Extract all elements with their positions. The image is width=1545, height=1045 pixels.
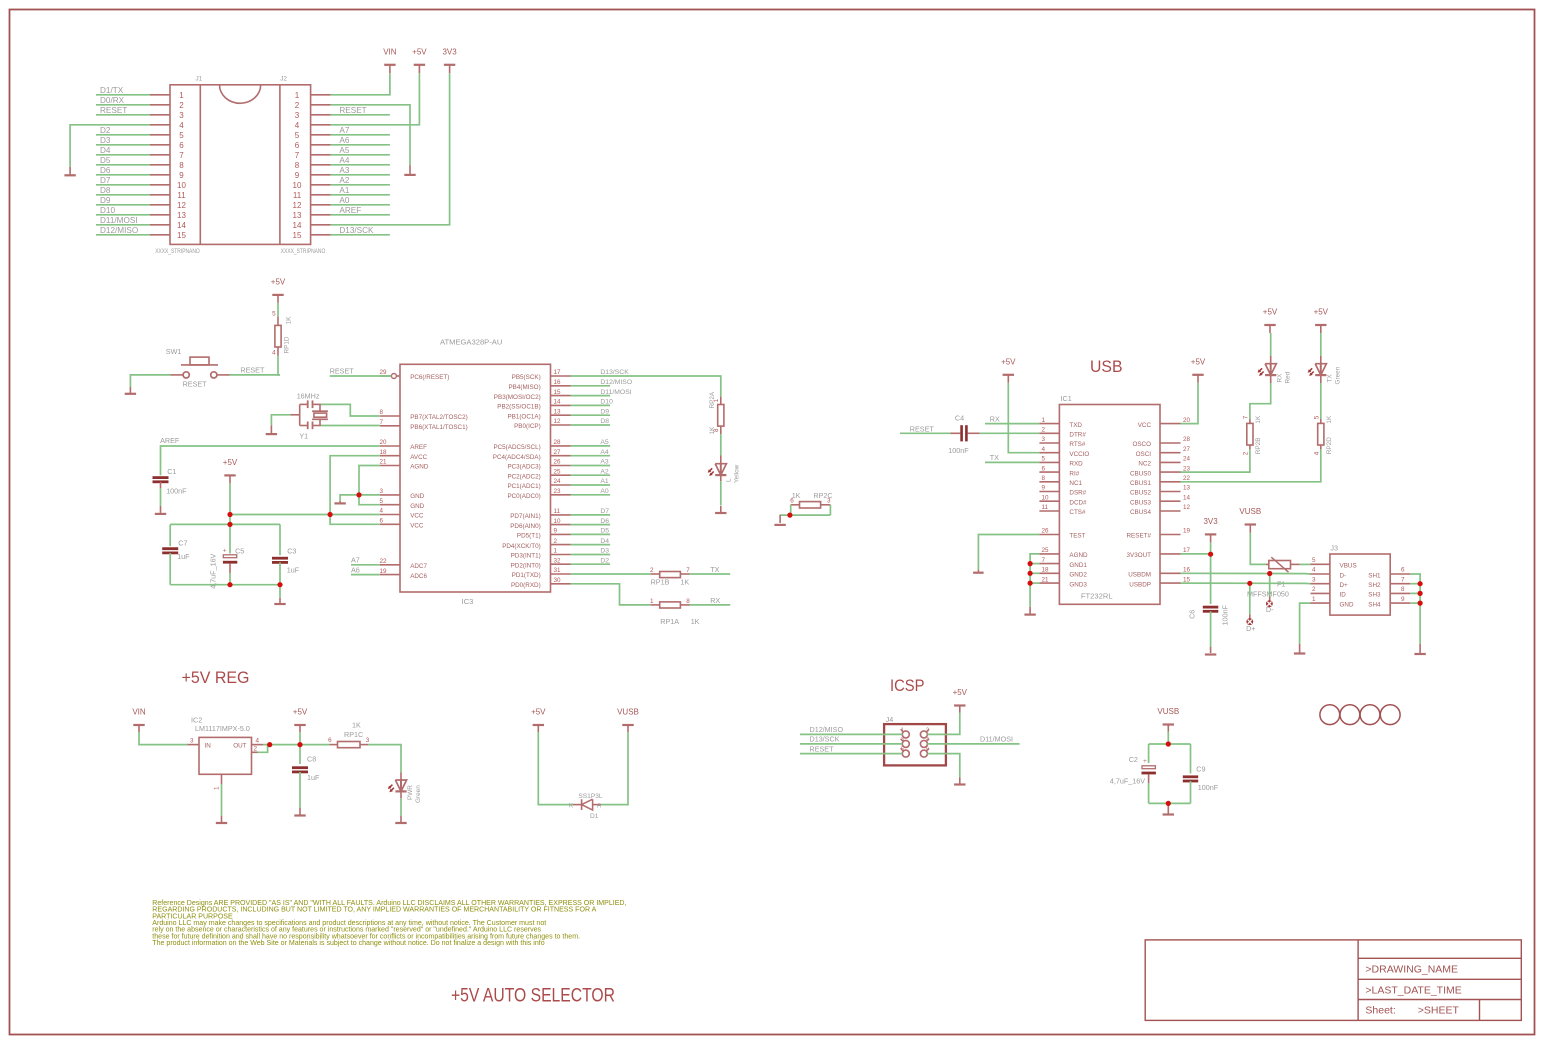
svg-text:CBUS0: CBUS0 [1130,470,1151,477]
svg-text:L: L [726,478,733,482]
svg-text:+5V: +5V [1191,357,1206,366]
svg-text:C4: C4 [955,414,964,423]
svg-text:C6: C6 [1187,610,1196,619]
svg-text:RXD: RXD [1069,461,1083,468]
svg-text:AREF: AREF [339,206,361,215]
svg-text:A1: A1 [339,186,349,195]
svg-text:26: 26 [554,459,562,466]
svg-text:CBUS1: CBUS1 [1130,480,1151,487]
svg-text:SH2: SH2 [1368,582,1381,589]
svg-text:4: 4 [1042,446,1046,453]
svg-text:USBDM: USBDM [1128,572,1151,579]
svg-text:>DRAWING_NAME: >DRAWING_NAME [1365,964,1458,976]
svg-text:A6: A6 [339,136,349,145]
svg-text:IN: IN [205,743,212,750]
svg-text:SH1: SH1 [1368,572,1381,579]
svg-text:3V3OUT: 3V3OUT [1127,552,1152,559]
svg-text:7: 7 [1042,557,1046,564]
svg-text:XXXX_STRIPNANO: XXXX_STRIPNANO [155,248,200,255]
svg-text:AGND: AGND [1069,552,1088,559]
svg-text:3: 3 [366,737,370,744]
svg-text:DCD#: DCD# [1069,499,1087,506]
svg-text:6: 6 [1042,465,1046,472]
svg-text:21: 21 [380,459,388,466]
svg-text:C1: C1 [167,467,176,476]
svg-text:6: 6 [328,737,332,744]
svg-text:D7: D7 [100,176,111,185]
svg-text:VCC: VCC [410,523,424,530]
svg-text:5: 5 [272,311,276,318]
svg-text:>LAST_DATE_TIME: >LAST_DATE_TIME [1365,985,1461,997]
svg-text:VBUS: VBUS [1340,563,1357,570]
svg-text:AVCC: AVCC [410,454,427,461]
svg-text:6: 6 [380,518,384,525]
svg-text:5: 5 [901,747,904,753]
svg-text:17: 17 [554,369,562,376]
svg-text:13: 13 [554,408,562,415]
svg-text:PD1(TXD): PD1(TXD) [512,572,541,579]
svg-text:AREF: AREF [410,444,427,451]
svg-text:20: 20 [380,439,388,446]
svg-text:IC3: IC3 [462,597,474,606]
svg-text:1K: 1K [1255,415,1262,424]
svg-text:PB5(SCK): PB5(SCK) [512,374,541,381]
svg-text:A0: A0 [600,488,609,495]
svg-text:18: 18 [380,449,388,456]
svg-text:+5V: +5V [1263,308,1278,317]
svg-text:C7: C7 [178,538,187,547]
svg-text:15: 15 [1183,576,1191,583]
svg-text:VIN: VIN [383,47,397,56]
svg-text:PC1(ADC1): PC1(ADC1) [507,483,540,490]
svg-text:1: 1 [901,727,904,733]
svg-text:PD5(T1): PD5(T1) [517,533,541,540]
svg-text:PB6(XTAL1/TOSC1): PB6(XTAL1/TOSC1) [410,424,468,431]
svg-text:5: 5 [1312,557,1316,564]
svg-text:100nF: 100nF [1198,783,1219,792]
svg-text:PC6(/RESET): PC6(/RESET) [410,374,449,381]
svg-text:16: 16 [1183,567,1191,574]
svg-text:1: 1 [295,91,300,100]
svg-text:3V3: 3V3 [442,47,457,56]
svg-text:3: 3 [380,488,384,495]
svg-text:Green: Green [415,785,422,803]
svg-text:+5V: +5V [1001,357,1016,366]
svg-text:D12/MISO: D12/MISO [600,379,632,386]
svg-text:IC2: IC2 [191,715,202,724]
svg-text:17: 17 [1183,547,1191,554]
svg-text:13: 13 [177,211,186,220]
svg-text:12: 12 [177,201,186,210]
svg-text:GND: GND [1340,601,1354,608]
svg-text:24: 24 [554,478,562,485]
svg-text:23: 23 [554,488,562,495]
svg-text:A4: A4 [600,449,609,456]
svg-text:RP1C: RP1C [344,730,363,739]
svg-text:ID: ID [1340,592,1347,599]
svg-text:SW1: SW1 [166,347,182,356]
svg-text:16MHz: 16MHz [297,392,320,401]
svg-text:1K: 1K [286,316,293,325]
svg-text:TEST: TEST [1069,533,1085,540]
svg-text:D11/MOSI: D11/MOSI [980,735,1013,744]
svg-text:CBUS3: CBUS3 [1130,499,1151,506]
svg-text:5: 5 [1313,415,1320,419]
svg-text:19: 19 [380,568,388,575]
svg-text:25: 25 [554,468,562,475]
svg-text:5: 5 [380,498,384,505]
svg-text:D8: D8 [600,418,609,425]
svg-text:PWR: PWR [407,785,414,800]
svg-text:>SHEET: >SHEET [1418,1004,1460,1016]
svg-text:D-: D- [1340,572,1347,579]
svg-text:31: 31 [554,567,562,574]
svg-text:1: 1 [1312,596,1316,603]
svg-text:4: 4 [926,737,929,743]
svg-text:2: 2 [650,567,654,574]
svg-text:DTR#: DTR# [1069,432,1086,439]
svg-text:VUSB: VUSB [1239,507,1261,516]
svg-text:18: 18 [1042,567,1050,574]
svg-text:100nF: 100nF [948,446,969,455]
svg-text:4: 4 [1312,567,1316,574]
svg-text:AREF: AREF [160,436,180,445]
svg-text:D12/MISO: D12/MISO [810,725,844,734]
svg-text:15: 15 [177,231,186,240]
svg-text:24: 24 [1183,456,1191,463]
svg-text:RESET: RESET [183,380,208,389]
svg-text:+5V AUTO SELECTOR: +5V AUTO SELECTOR [451,985,615,1007]
svg-text:3: 3 [1312,576,1316,583]
svg-text:PB3(MOSI/OC2): PB3(MOSI/OC2) [494,394,541,401]
svg-text:A1: A1 [600,478,609,485]
svg-text:A3: A3 [339,166,349,175]
svg-text:VCCIO: VCCIO [1069,451,1089,458]
svg-text:3: 3 [1042,436,1046,443]
svg-text:2: 2 [254,746,258,753]
svg-text:4,7uF_16V: 4,7uF_16V [208,553,217,588]
svg-text:+: + [1143,758,1147,765]
svg-text:28: 28 [554,439,562,446]
svg-text:6: 6 [179,141,184,150]
svg-text:7: 7 [179,151,184,160]
svg-text:12: 12 [554,418,562,425]
svg-text:1: 1 [554,548,558,555]
svg-text:6: 6 [1401,567,1405,574]
svg-text:RESET#: RESET# [1127,533,1152,540]
svg-text:C2: C2 [1129,755,1138,764]
svg-text:1: 1 [214,786,221,790]
svg-text:D2: D2 [600,557,609,564]
svg-text:D12/MISO: D12/MISO [100,226,138,235]
svg-text:VUSB: VUSB [617,708,639,717]
svg-text:A5: A5 [600,439,609,446]
svg-text:VCC: VCC [1138,422,1152,429]
svg-text:14: 14 [177,221,186,230]
svg-text:7: 7 [686,567,690,574]
svg-text:12: 12 [1183,504,1191,511]
svg-text:9: 9 [554,528,558,535]
svg-text:15: 15 [293,231,302,240]
svg-text:RESET: RESET [240,366,265,375]
svg-text:RESET: RESET [100,106,127,115]
svg-text:1K: 1K [792,491,801,500]
svg-text:PB4(MISO): PB4(MISO) [508,384,540,391]
svg-text:D8: D8 [100,186,111,195]
svg-text:D9: D9 [600,408,609,415]
svg-text:PC2(ADC2): PC2(ADC2) [507,473,540,480]
svg-text:D+: D+ [1340,582,1349,589]
svg-text:CBUS2: CBUS2 [1130,490,1151,497]
svg-text:D+: D+ [1246,624,1255,633]
svg-text:PD6(AIN0): PD6(AIN0) [510,523,540,530]
svg-text:22: 22 [380,558,388,565]
svg-text:7: 7 [295,151,300,160]
svg-text:RP2A: RP2A [709,391,716,408]
svg-text:RX: RX [990,414,1000,423]
svg-text:SS1P3L: SS1P3L [578,793,603,800]
svg-text:J2: J2 [280,75,287,82]
svg-text:ICSP: ICSP [890,676,925,695]
svg-text:8: 8 [1401,586,1405,593]
svg-text:4: 4 [272,350,276,357]
svg-text:D5: D5 [100,156,111,165]
svg-text:+5V: +5V [293,708,308,717]
svg-text:8: 8 [686,598,690,605]
svg-text:100nF: 100nF [166,487,187,496]
svg-text:32: 32 [554,557,562,564]
svg-text:RP2C: RP2C [813,491,832,500]
svg-text:TXD: TXD [1069,422,1082,429]
svg-text:PB0(ICP): PB0(ICP) [514,423,541,430]
svg-text:D13/SCK: D13/SCK [339,226,374,235]
svg-text:2: 2 [926,727,929,733]
svg-text:D2: D2 [100,126,111,135]
svg-text:4,7uF_16V: 4,7uF_16V [1110,777,1145,786]
svg-text:RESET: RESET [339,106,366,115]
svg-text:C3: C3 [287,547,296,556]
svg-text:SH3: SH3 [1368,592,1381,599]
svg-text:A5: A5 [339,146,349,155]
svg-text:2: 2 [1312,586,1316,593]
svg-text:D10: D10 [100,206,115,215]
svg-text:PD2(INT0): PD2(INT0) [511,562,541,569]
svg-text:1uF: 1uF [307,773,320,782]
svg-text:7: 7 [380,419,384,426]
svg-text:14: 14 [1183,494,1191,501]
svg-text:GND3: GND3 [1069,581,1087,588]
svg-text:D9: D9 [100,196,111,205]
svg-text:9: 9 [1042,485,1046,492]
svg-text:NC2: NC2 [1138,461,1151,468]
svg-text:1uF: 1uF [177,552,190,561]
svg-text:A2: A2 [600,468,609,475]
svg-text:VUSB: VUSB [1157,707,1179,716]
svg-text:8: 8 [295,161,300,170]
svg-text:D1/TX: D1/TX [100,86,124,95]
svg-text:10: 10 [1042,494,1050,501]
svg-text:1: 1 [179,91,184,100]
svg-text:GND2: GND2 [1069,572,1087,579]
svg-text:PB1(OC1A): PB1(OC1A) [507,413,540,420]
svg-text:D1: D1 [590,813,599,820]
svg-text:14: 14 [293,221,302,230]
svg-text:1K: 1K [352,720,361,729]
svg-text:J1: J1 [196,75,203,82]
svg-text:10: 10 [554,518,562,525]
svg-text:10: 10 [177,181,186,190]
svg-text:Y1: Y1 [299,431,308,440]
svg-text:9: 9 [179,171,184,180]
svg-text:RX: RX [710,596,720,605]
svg-text:USB: USB [1090,357,1123,376]
svg-text:27: 27 [554,449,562,456]
svg-text:SH4: SH4 [1368,601,1381,608]
svg-text:CBUS4: CBUS4 [1130,509,1151,516]
svg-text:PD0(RXD): PD0(RXD) [511,582,541,589]
svg-text:28: 28 [1183,436,1191,443]
svg-text:LM1117IMPX-5.0: LM1117IMPX-5.0 [195,724,250,733]
svg-text:TX: TX [710,565,719,574]
svg-text:A7: A7 [351,556,360,565]
svg-text:+5V: +5V [531,708,546,717]
svg-text:C8: C8 [307,755,316,764]
svg-text:1K: 1K [709,426,716,435]
svg-text:USBDP: USBDP [1129,581,1151,588]
svg-text:TX: TX [1327,374,1334,383]
svg-text:ADC6: ADC6 [410,573,427,580]
svg-text:1: 1 [1042,417,1046,424]
svg-text:RX: RX [1277,373,1284,383]
svg-text:D4: D4 [100,146,111,155]
svg-text:9: 9 [1401,596,1405,603]
svg-text:5: 5 [295,131,300,140]
svg-text:D7: D7 [600,508,609,515]
svg-text:D3: D3 [600,548,609,555]
svg-text:A0: A0 [339,196,349,205]
svg-text:D5: D5 [600,528,609,535]
svg-text:PC3(ADC3): PC3(ADC3) [507,464,540,471]
svg-text:3: 3 [190,737,194,744]
svg-text:2: 2 [554,538,558,545]
svg-text:2: 2 [1243,451,1250,455]
svg-text:D4: D4 [600,538,609,545]
svg-text:D11/MOSI: D11/MOSI [600,389,631,396]
svg-text:RTS#: RTS# [1069,441,1085,448]
svg-text:PB2(SS/OC1B): PB2(SS/OC1B) [497,404,540,411]
svg-text:9: 9 [295,171,300,180]
svg-text:8: 8 [179,161,184,170]
svg-text:2: 2 [1042,427,1046,434]
svg-text:3: 3 [901,737,904,743]
svg-text:12: 12 [293,201,302,210]
svg-text:A7: A7 [339,126,349,135]
svg-text:CTS#: CTS# [1069,509,1086,516]
svg-text:4: 4 [256,737,260,744]
svg-text:+5V: +5V [412,47,427,56]
svg-text:RP1D: RP1D [284,336,291,353]
svg-text:13: 13 [1183,485,1191,492]
svg-text:7: 7 [1243,415,1250,419]
svg-text:Green: Green [1335,366,1342,384]
svg-text:J3: J3 [1330,544,1338,553]
svg-text:7: 7 [1401,576,1405,583]
svg-text:14: 14 [554,399,562,406]
svg-text:4: 4 [295,121,300,130]
svg-text:VIN: VIN [132,708,146,717]
svg-text:16: 16 [554,379,562,386]
svg-text:Yellow: Yellow [734,464,741,483]
svg-text:4: 4 [179,121,184,130]
svg-text:3V3: 3V3 [1203,517,1218,526]
svg-text:D6: D6 [600,518,609,525]
svg-text:D3: D3 [100,136,111,145]
svg-text:25: 25 [1042,547,1050,554]
svg-text:The product information on the: The product information on the Web Site … [152,940,544,947]
svg-text:13: 13 [293,211,302,220]
svg-text:RP2D: RP2D [1326,437,1333,454]
svg-text:PC4(ADC4/SDA): PC4(ADC4/SDA) [493,454,541,461]
svg-text:3: 3 [295,111,300,120]
svg-text:D10: D10 [600,399,613,406]
svg-text:D13/SCK: D13/SCK [810,735,840,744]
svg-text:+: + [223,548,227,555]
svg-text:3: 3 [179,111,184,120]
svg-text:2: 2 [295,101,300,110]
svg-text:5: 5 [179,131,184,140]
svg-text:A4: A4 [339,156,349,165]
svg-text:15: 15 [554,389,562,396]
svg-text:NC1: NC1 [1069,480,1082,487]
svg-text:8: 8 [380,409,384,416]
svg-text:30: 30 [554,577,562,584]
svg-text:MFFSMF050: MFFSMF050 [1247,590,1289,599]
svg-text:PD4(XCK/T0): PD4(XCK/T0) [502,543,541,550]
svg-text:Red: Red [1285,371,1292,383]
svg-text:TX: TX [990,453,999,462]
svg-text:4: 4 [1313,451,1320,455]
svg-text:J4: J4 [886,715,894,724]
svg-text:6: 6 [926,747,929,753]
svg-text:C5: C5 [235,547,244,556]
svg-text:DSR#: DSR# [1069,490,1086,497]
svg-text:PC5(ADC5/SCL): PC5(ADC5/SCL) [493,444,540,451]
svg-text:11: 11 [293,191,302,200]
svg-text:1K: 1K [680,577,689,586]
svg-text:26: 26 [1042,528,1050,535]
svg-text:VCC: VCC [410,513,424,520]
svg-text:GND1: GND1 [1069,562,1087,569]
svg-text:1: 1 [650,598,654,605]
svg-text:AGND: AGND [410,464,429,471]
svg-text:+5V: +5V [223,458,238,467]
svg-text:PC0(ADC0): PC0(ADC0) [507,493,540,500]
svg-text:FT232RL: FT232RL [1081,592,1113,601]
svg-text:IC1: IC1 [1061,394,1072,403]
svg-text:RI#: RI# [1069,470,1079,477]
svg-text:RP2B: RP2B [1255,437,1262,454]
svg-text:A3: A3 [600,459,609,466]
svg-text:OSCO: OSCO [1132,441,1151,448]
svg-text:A2: A2 [339,176,349,185]
svg-text:PD3(INT1): PD3(INT1) [511,553,541,560]
svg-text:+5V: +5V [271,277,286,286]
svg-text:RP1B: RP1B [651,577,670,586]
svg-text:+5V: +5V [953,688,968,697]
svg-text:19: 19 [1183,528,1191,535]
svg-text:+5V: +5V [1314,308,1329,317]
svg-text:PB7(XTAL2/TOSC2): PB7(XTAL2/TOSC2) [410,414,468,421]
